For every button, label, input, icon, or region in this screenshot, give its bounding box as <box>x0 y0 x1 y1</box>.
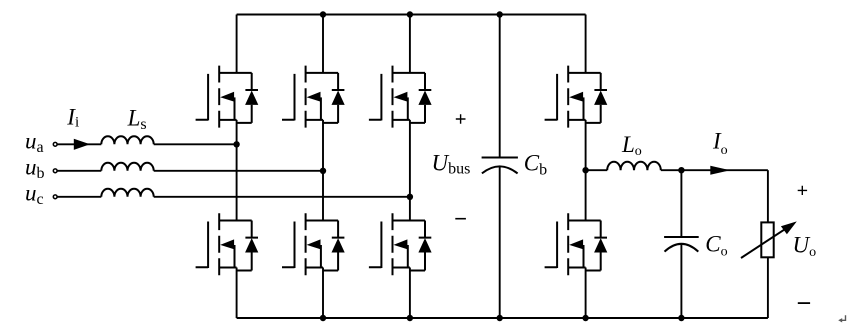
wire: load top lead <box>767 170 769 222</box>
node: bottom bus / leg2 <box>320 315 326 321</box>
node: Lo / Co <box>678 167 684 173</box>
wire: phase c from Ls to leg3 <box>154 196 410 198</box>
wire: Co bottom lead <box>680 244 682 318</box>
wire: leg3 vertical <box>409 15 411 319</box>
terminal ua <box>53 142 57 146</box>
MOSFET S8 (output lower) <box>545 213 608 275</box>
capacitor Co (polarized) <box>664 237 699 252</box>
node: top bus / leg3 <box>407 11 413 17</box>
MOSFET S6 (phase-c lower) <box>369 213 432 275</box>
inductor Ls phase a <box>101 136 153 144</box>
wire: Co top lead <box>680 170 682 237</box>
inductor Ls phase b <box>101 163 153 171</box>
wire: Cb top lead <box>499 15 501 158</box>
node: bottom bus / leg3 <box>407 315 413 321</box>
wire: load bottom lead <box>767 257 769 318</box>
capacitor Cb (polarized) <box>482 158 518 174</box>
node: phase b / leg2 <box>320 168 326 174</box>
wire: phase b from terminal to Ls <box>57 170 101 172</box>
wire: phase c from terminal to Ls <box>57 196 101 198</box>
MOSFET S5 (phase-c upper) <box>369 66 432 128</box>
wire: phase a from Ls to leg1 <box>154 143 237 145</box>
wire: top DC bus <box>237 14 586 16</box>
inductor Lo <box>607 162 661 170</box>
label minus (Uo) <box>798 302 810 304</box>
node: phase a / leg1 <box>233 141 239 147</box>
wire: output mid to Lo <box>586 169 608 171</box>
wire: phase a from terminal to Ls <box>57 143 101 145</box>
node: bottom bus / output leg <box>582 315 588 321</box>
node: output mid <box>582 167 588 173</box>
wire: phase b from Ls to leg2 <box>154 170 323 172</box>
MOSFET S4 (phase-b lower) <box>282 213 345 275</box>
node: bottom bus / Cb <box>497 315 503 321</box>
node: top bus / Cb <box>497 11 503 17</box>
wire: Lo to load corner <box>661 169 768 171</box>
wire: leg2 vertical <box>322 15 324 319</box>
MOSFET S2 (phase-a lower) <box>196 213 259 275</box>
label + (Ubus) <box>456 114 466 124</box>
wire: Cb bottom lead <box>499 166 501 318</box>
inductor Ls phase c <box>101 189 153 197</box>
terminal uc <box>53 195 57 199</box>
terminal ub <box>53 169 57 173</box>
MOSFET S7 (output upper) <box>545 66 608 128</box>
wire: output leg vertical <box>585 15 587 319</box>
node: bottom bus / Co <box>678 315 684 321</box>
current arrow Ii <box>74 139 90 150</box>
wire: bottom DC bus <box>237 317 768 319</box>
load resistor (variable) <box>761 222 773 257</box>
current arrow Io <box>710 166 730 175</box>
node: top bus / leg2 <box>320 11 326 17</box>
load arrow (variable indicator) <box>741 221 797 258</box>
label + (Uo) <box>798 186 807 195</box>
MOSFET S1 (phase-a upper) <box>196 66 259 128</box>
wire: leg1 vertical (drain/source) <box>236 15 238 319</box>
MOSFET S3 (phase-b upper) <box>282 66 345 128</box>
label minus (Ubus) <box>455 218 466 220</box>
node: phase c / leg3 <box>407 194 413 200</box>
paragraph return mark <box>838 315 845 322</box>
